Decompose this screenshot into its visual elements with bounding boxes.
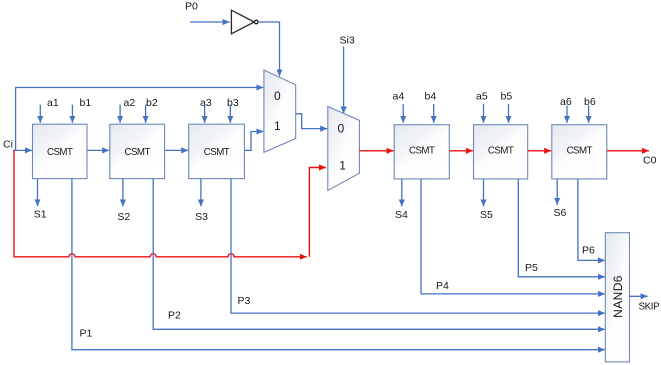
wire Si3 to mux M2 select <box>343 47 345 114</box>
wire a4 arrow <box>402 104 404 123</box>
svg-text:P4: P4 <box>436 280 449 292</box>
svg-text:CSMT: CSMT <box>204 147 230 158</box>
wire inverter output to mux M1 select <box>259 22 280 76</box>
wire a6 arrow <box>566 106 568 123</box>
wire b2 arrow <box>145 105 147 123</box>
wire b1 arrow <box>71 105 73 123</box>
wire a1 arrow <box>39 105 41 123</box>
svg-text:S5: S5 <box>480 209 493 221</box>
svg-text:NAND6: NAND6 <box>611 275 625 318</box>
block CSMT6 <box>552 125 607 179</box>
svg-text:P2: P2 <box>168 310 181 322</box>
svg-text:a1: a1 <box>47 97 59 109</box>
svg-text:a5: a5 <box>476 91 488 103</box>
svg-text:CSMT: CSMT <box>488 145 514 156</box>
wire S3 arrow <box>200 179 202 207</box>
svg-text:b5: b5 <box>501 91 513 103</box>
wire CSMT1 to CSMT2 <box>87 149 109 151</box>
svg-text:a6: a6 <box>560 96 572 108</box>
wire P2 to NAND6 <box>153 179 605 329</box>
wire P0 input to inverter <box>190 21 230 23</box>
block CSMT5 <box>474 125 528 179</box>
svg-text:C0: C0 <box>643 155 657 167</box>
wire red bus up to mux M2 input 1 <box>309 168 326 257</box>
svg-text:S1: S1 <box>34 209 47 221</box>
wire CSMT3 to mux M1 input 1 <box>244 132 263 151</box>
wire a2 arrow <box>119 105 121 123</box>
wire red CSMT5 to CSMT6 <box>528 150 552 152</box>
svg-text:P1: P1 <box>80 328 93 340</box>
svg-text:SKIP: SKIP <box>639 302 661 313</box>
svg-text:P3: P3 <box>238 295 251 307</box>
wire b3 arrow <box>229 105 231 123</box>
svg-text:b1: b1 <box>80 97 92 109</box>
wire P6 to NAND6 <box>578 179 605 260</box>
svg-text:P0: P0 <box>185 1 198 13</box>
svg-text:S2: S2 <box>117 211 130 223</box>
block CSMT4 <box>394 125 449 179</box>
svg-text:P5: P5 <box>525 262 538 274</box>
inverter U1 triangle <box>231 10 254 34</box>
svg-text:0: 0 <box>274 89 281 103</box>
svg-text:CSMT: CSMT <box>567 145 593 156</box>
wire b4 arrow <box>433 104 435 123</box>
wire P5 to NAND6 <box>518 179 605 277</box>
wire NAND6 output SKIP <box>630 295 648 297</box>
svg-text:b6: b6 <box>584 96 596 108</box>
wire a5 arrow <box>483 104 485 123</box>
svg-text:S4: S4 <box>395 209 408 221</box>
wire mux M1 output to mux M2 input 0 <box>296 114 328 129</box>
svg-text:CSMT: CSMT <box>409 145 435 156</box>
wire P1 to NAND6 <box>72 179 605 350</box>
wire red CSMT6 to C0 <box>607 150 649 152</box>
svg-text:Si3: Si3 <box>340 35 355 47</box>
svg-text:b3: b3 <box>227 97 239 109</box>
wire S2 arrow <box>122 179 124 207</box>
wire b5 arrow <box>508 104 510 123</box>
block CSMT1 <box>33 124 88 178</box>
block CSMT2 <box>110 124 165 178</box>
mux M1 <box>264 70 296 152</box>
svg-text:CSMT: CSMT <box>124 147 150 158</box>
svg-text:S6: S6 <box>554 207 567 219</box>
wire Ci branch up to mux M1 input 0 <box>16 88 264 151</box>
svg-text:P6: P6 <box>582 245 595 257</box>
gate NAND6 <box>605 233 629 362</box>
svg-text:Ci: Ci <box>3 139 13 151</box>
svg-text:a4: a4 <box>393 91 405 103</box>
svg-text:CSMT: CSMT <box>47 147 73 158</box>
wire a3 arrow <box>204 105 206 123</box>
svg-text:S3: S3 <box>195 211 208 223</box>
wire red mux M2 output to CSMT4 <box>359 150 393 152</box>
inverter U1 bubble <box>254 20 258 24</box>
wire S5 arrow <box>483 179 485 207</box>
wire P4 to NAND6 <box>421 179 605 294</box>
wire P3 to NAND6 <box>231 179 605 313</box>
svg-text:a3: a3 <box>200 97 212 109</box>
wire b6 arrow <box>588 106 590 123</box>
svg-text:0: 0 <box>338 121 345 135</box>
svg-text:a2: a2 <box>124 97 136 109</box>
wire red Ci down to bottom bus with hops <box>14 150 307 256</box>
svg-text:1: 1 <box>274 119 281 133</box>
wire S1 arrow <box>37 179 39 207</box>
svg-text:1: 1 <box>339 158 346 172</box>
wire CSMT2 to CSMT3 <box>165 149 189 151</box>
mux M2 <box>328 107 360 191</box>
wire S6 arrow <box>556 179 558 205</box>
wire red CSMT4 to CSMT5 <box>449 150 473 152</box>
block CSMT3 <box>189 124 245 178</box>
svg-text:b4: b4 <box>425 91 437 103</box>
svg-text:b2: b2 <box>146 97 158 109</box>
wire S4 arrow <box>401 179 403 207</box>
wire Ci into CSMT1 <box>13 149 32 151</box>
